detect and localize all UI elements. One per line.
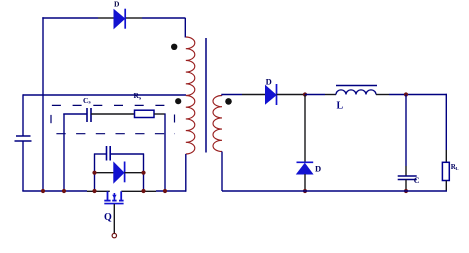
junction dot rail / clamp left leg	[92, 189, 96, 193]
wire top diode cathode lead (black)	[126, 17, 142, 19]
svg-text:L: L	[456, 166, 459, 171]
wire snubber horizontal right (black)	[154, 113, 166, 115]
wire secondary top lead	[222, 95, 242, 96]
wire inductor left lead (black)	[325, 94, 336, 96]
svg-text:L: L	[337, 101, 344, 112]
wire R bottom lead (black)	[445, 181, 447, 192]
junction dot node out top	[303, 92, 307, 96]
wire top left horizontal	[42, 17, 98, 19]
resistor Rs box	[135, 110, 155, 117]
wire snubber horizontal left	[63, 113, 87, 115]
wire bottom rail left	[22, 190, 87, 192]
svg-text:C: C	[414, 176, 420, 185]
junction dot diode row left	[92, 171, 96, 175]
svg-text:D: D	[266, 76, 272, 86]
terminal circle gate	[112, 233, 116, 237]
dashed snubber box top edge	[52, 104, 175, 106]
junction dot rail / snubber right leg	[163, 189, 167, 193]
diode D3 cathode bar	[276, 84, 278, 105]
junction dot rail / snubber left leg	[62, 189, 66, 193]
wire bottom rail mosfet source lead (black)	[87, 190, 110, 192]
diode D1 cathode bar	[124, 9, 126, 29]
wire snubber left vertical	[63, 114, 65, 192]
dashed snubber box bottom edge	[56, 133, 175, 135]
wire cap C bottom lead (black)	[405, 180, 407, 192]
mosfet Q right foot	[119, 200, 124, 202]
capacitor C-in plate top	[16, 135, 31, 137]
wire diode row left (black)	[95, 172, 114, 174]
wire node to inductor	[305, 94, 325, 96]
junction dot cap bottom	[404, 189, 408, 193]
wire R top lead (black)	[445, 150, 447, 162]
wire gate lead (black)	[113, 204, 115, 233]
wire bottom rail right	[222, 190, 447, 192]
junction dot cap top	[404, 92, 408, 96]
wire primary top lead	[184, 18, 186, 38]
junction dot rail / clamp right leg	[141, 189, 145, 193]
svg-text:s: s	[89, 100, 91, 106]
wire freewheel bottom (black)	[304, 174, 306, 191]
polarity dot primary top	[171, 44, 177, 50]
wire top right to transformer (navy)	[142, 17, 186, 19]
transformer primary winding	[186, 37, 195, 154]
mosfet Q left stub	[107, 191, 109, 200]
diode D2 clamp triangle	[114, 163, 124, 183]
capacitor clamp plate right	[109, 146, 111, 161]
wire freewheel top (black)	[304, 95, 306, 163]
wire primary bottom lead	[185, 154, 187, 192]
wire right vertical top	[445, 94, 447, 150]
junction dot freewheel bottom	[303, 189, 307, 193]
dashed snubber box right edge	[174, 115, 176, 123]
wire bottom rail mosfet drain lead (black)	[121, 190, 156, 192]
resistor R box	[442, 162, 449, 180]
svg-text:s: s	[139, 96, 141, 102]
wire input-cap top lead	[22, 94, 24, 136]
capacitor clamp plate left	[106, 146, 108, 161]
transformer secondary winding	[213, 96, 222, 152]
wire cap C top lead lower part (black)	[405, 166, 407, 176]
transformer core	[205, 38, 207, 153]
mosfet Q middle foot	[112, 200, 116, 202]
wire top diode anode lead (black)	[98, 17, 114, 19]
wire rectifier to node (black)	[277, 94, 306, 96]
wire left rail vertical	[42, 17, 44, 191]
inductor L core bar	[336, 85, 377, 87]
wire secondary bottom lead	[221, 152, 223, 192]
wire input-cap bottom lead	[22, 141, 24, 191]
capacitor C-in plate bottom	[15, 140, 32, 142]
wire mid horizontal y=95	[23, 94, 186, 96]
mosfet Q middle arrow	[113, 193, 115, 201]
wire clamp block left vertical	[94, 154, 96, 192]
wire clamp block top right	[111, 153, 145, 155]
capacitor C plate bottom	[398, 179, 417, 181]
dashed snubber box left edge	[50, 115, 52, 123]
wire inductor to right corner	[389, 94, 447, 96]
wire clamp block right vertical	[143, 154, 145, 192]
wire snubber horizontal mid (black)	[91, 113, 135, 115]
junction dot rail / left rail	[41, 189, 45, 193]
mosfet Q left foot	[104, 200, 110, 202]
wire bottom rail to transformer	[156, 190, 186, 192]
wire snubber right vertical	[164, 114, 166, 192]
capacitor Cs plate left	[86, 108, 88, 122]
mosfet Q gate bar	[104, 203, 123, 205]
mosfet Q right stub	[120, 191, 122, 200]
polarity dot primary lower	[175, 98, 181, 104]
junction dot diode row right	[141, 171, 145, 175]
diode D2 cathode bar	[124, 162, 126, 183]
diode D3 rectifier triangle	[266, 86, 277, 104]
wire inductor right lead (black)	[376, 94, 389, 96]
wire cap C top lead	[405, 95, 407, 167]
wire to rectifier (black)	[242, 94, 266, 96]
diode D4 freewheel triangle	[297, 164, 313, 174]
diode D4 freewheel bar	[297, 161, 314, 163]
svg-text:Q: Q	[104, 212, 112, 223]
wire clamp block top left	[94, 153, 107, 155]
inductor L winding	[336, 90, 376, 95]
svg-text:D: D	[114, 0, 120, 9]
svg-text:D: D	[315, 164, 321, 174]
capacitor C plate top	[398, 175, 417, 177]
polarity dot secondary	[225, 98, 232, 105]
capacitor Cs plate right	[90, 108, 92, 122]
wire diode row right (black)	[124, 172, 143, 174]
diode D1 reset, triangle	[114, 10, 125, 28]
